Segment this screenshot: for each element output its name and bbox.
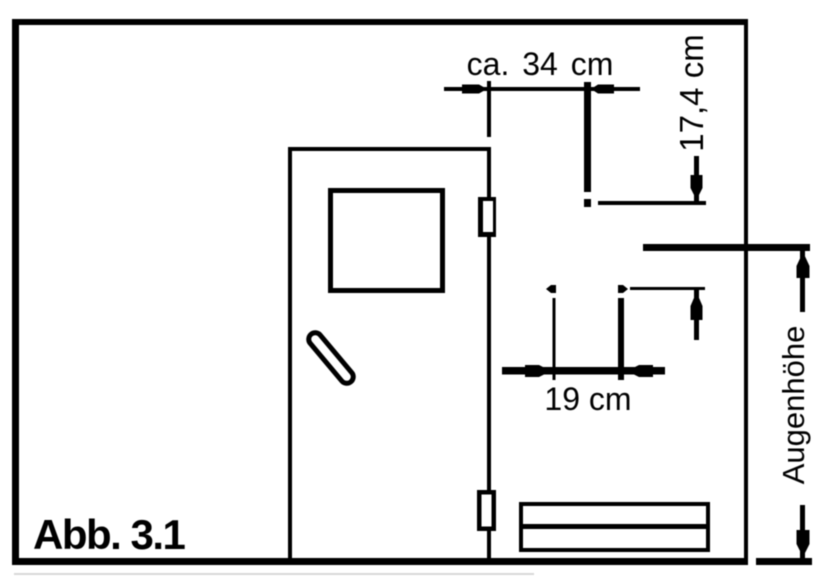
arrow right 19cm	[627, 365, 653, 377]
extension line door edge	[487, 81, 491, 137]
dot below thick extension line	[584, 199, 591, 207]
arrow down 17,4cm	[691, 175, 703, 200]
door handle	[306, 330, 356, 386]
arrow dot 19cm right	[618, 285, 628, 293]
door window	[328, 188, 445, 293]
vertical line with up arrow	[694, 289, 699, 340]
dimension line 34cm	[444, 87, 640, 91]
arrow left 34cm	[462, 85, 487, 94]
extension line 19cm left thin	[553, 298, 556, 380]
Augenhoehe dimension lower line	[800, 505, 805, 560]
horizontal line under 17,4cm	[598, 201, 706, 205]
dimension line 17,4cm vertical	[694, 156, 699, 205]
extension line 19cm right thick	[618, 298, 624, 380]
svg-text:Abb. 3.1: Abb. 3.1	[33, 511, 186, 558]
door	[288, 147, 491, 558]
horizontal line right of 19cm	[630, 287, 705, 290]
Augenhoehe dimension upper line	[800, 250, 805, 312]
dimension line 19cm	[502, 367, 665, 375]
arrow right 34cm	[591, 85, 614, 94]
arrow left 19cm	[525, 365, 551, 377]
extension line thick 34cm right	[584, 82, 591, 192]
arrow up small	[691, 292, 703, 320]
eye height line	[643, 244, 810, 251]
svg-text:19 cm: 19 cm	[544, 381, 631, 417]
hinge top	[478, 197, 496, 237]
scan artifact line bottom	[14, 573, 534, 575]
arrow up Augenhoehe	[797, 252, 810, 278]
letterbox shelf	[519, 502, 710, 552]
svg-text:Augenhöhe: Augenhöhe	[776, 326, 811, 485]
arrow down Augenhoehe	[797, 530, 810, 557]
dot start 19cm left	[546, 285, 556, 293]
hinge bottom	[477, 490, 496, 531]
floor tick right	[756, 558, 812, 565]
svg-text:17,4 cm: 17,4 cm	[673, 34, 710, 151]
svg-text:ca. 34 cm: ca. 34 cm	[467, 46, 614, 82]
